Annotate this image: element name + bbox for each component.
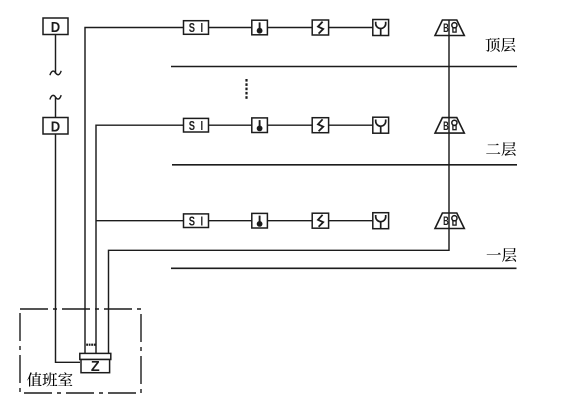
- row 1 strobe lamp in trapezoid: [452, 23, 457, 32]
- row 1 heat detector box: [252, 20, 268, 35]
- svg-text:B: B: [443, 216, 449, 229]
- svg-text:D: D: [51, 18, 60, 35]
- row 1 wire: [329, 27, 373, 29]
- control panel Z body: [81, 359, 110, 375]
- riser bus 1 (top floor loop): [85, 28, 184, 354]
- sounder return bus: [109, 20, 450, 354]
- row 1 manual call point SI box: [184, 21, 209, 36]
- row 2 wire: [267, 124, 312, 126]
- floor 2 line: [172, 164, 517, 166]
- row 2 sounder/strobe trapezoid: [435, 118, 464, 134]
- row 3 wire: [329, 220, 373, 222]
- row 2 manual call point SI box: [184, 118, 209, 133]
- floor 1 line: [171, 267, 517, 269]
- continuation dots above panel: [86, 344, 95, 346]
- wire D1 down: [55, 35, 57, 74]
- row 1 wire: [267, 27, 312, 29]
- row 2 wire: [209, 124, 252, 126]
- row 2 strobe lamp in trapezoid: [452, 120, 457, 129]
- riser bus 2 (floors 1-2 loop): [96, 125, 184, 353]
- row 1 letter B in trapezoid: [443, 23, 449, 36]
- label floor 1: [487, 248, 517, 262]
- label floor 2: [486, 142, 516, 156]
- row 1 sounder/strobe trapezoid: [435, 20, 464, 36]
- detector D1 box: [43, 18, 68, 35]
- row 3 hydrant button box (Y): [373, 213, 389, 229]
- svg-text:B: B: [443, 120, 449, 133]
- svg-text:SI: SI: [189, 215, 209, 229]
- row 1 hydrant button box (Y): [373, 20, 389, 36]
- row 1 smoke detector box (zigzag): [312, 20, 328, 35]
- break tilde upper: [50, 71, 61, 75]
- wire D2 down to control panel: [56, 134, 81, 362]
- top floor line: [171, 66, 517, 68]
- wire to D2: [55, 98, 57, 118]
- row 2 hydrant button box (Y): [373, 117, 389, 133]
- svg-text:SI: SI: [189, 120, 209, 134]
- svg-text:SI: SI: [189, 22, 209, 36]
- row 3 smoke detector box (zigzag): [312, 213, 328, 228]
- duty room boundary (chain line): [20, 309, 141, 393]
- svg-text:B: B: [443, 23, 449, 36]
- row 3 letter B in trapezoid: [443, 216, 449, 229]
- row 2 heat detector box: [252, 118, 268, 133]
- row 1 wire: [209, 27, 252, 29]
- row 3 wire: [209, 220, 252, 222]
- row 3 heat detector box: [252, 213, 268, 228]
- row 2 wire: [329, 124, 373, 126]
- row 2 letter B in trapezoid: [443, 120, 449, 133]
- detector D2 box: [43, 118, 68, 135]
- break tilde lower: [50, 95, 61, 99]
- svg-text:D: D: [51, 118, 60, 135]
- label top floor: [486, 38, 516, 52]
- wire row3 tap: [96, 220, 184, 222]
- row 2 smoke detector box (zigzag): [312, 118, 328, 133]
- control panel Z lid: [80, 353, 111, 359]
- row 3 wire: [267, 220, 312, 222]
- svg-text:Z: Z: [91, 359, 100, 375]
- row 3 manual call point SI box: [184, 214, 209, 229]
- label duty room: [27, 372, 72, 386]
- row 3 strobe lamp in trapezoid: [452, 216, 457, 226]
- continuation dots vertical: [245, 79, 247, 99]
- row 3 sounder/strobe trapezoid: [435, 213, 464, 229]
